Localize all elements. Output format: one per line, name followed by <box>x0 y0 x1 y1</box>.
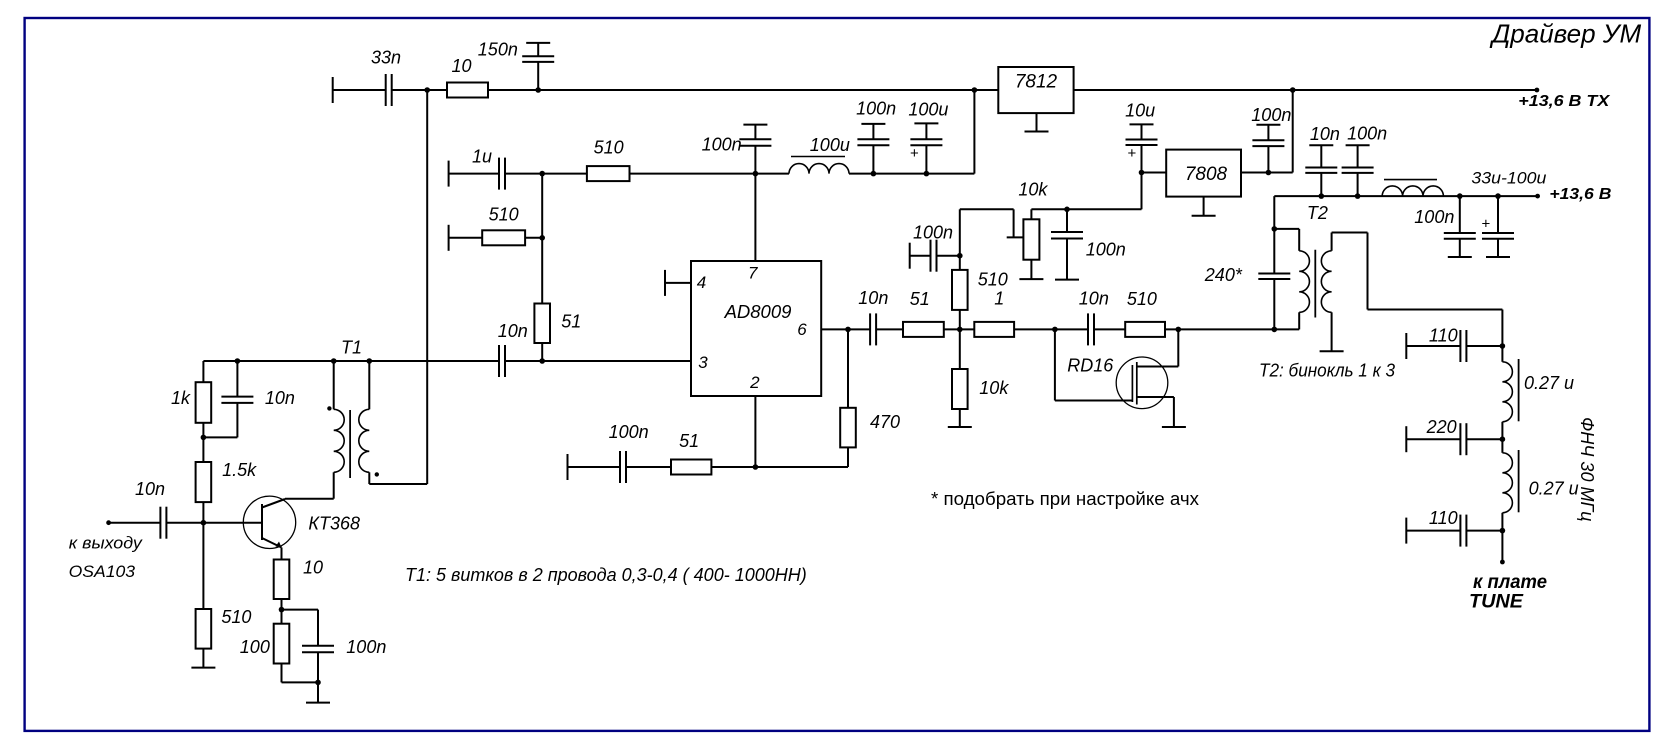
svg-text:1.5k: 1.5k <box>222 460 257 480</box>
svg-text:510: 510 <box>594 138 624 158</box>
svg-text:КТ368: КТ368 <box>308 514 360 534</box>
svg-text:510: 510 <box>221 607 251 627</box>
svg-text:240*: 240* <box>1204 265 1243 285</box>
svg-text:110: 110 <box>1429 508 1458 528</box>
svg-text:470: 470 <box>870 412 900 432</box>
svg-text:T2: T2 <box>1307 203 1328 223</box>
svg-text:100n: 100n <box>1347 123 1387 143</box>
svg-text:100n: 100n <box>1086 240 1126 260</box>
svg-text:T2: бинокль 1 к 3: T2: бинокль 1 к 3 <box>1259 361 1395 381</box>
svg-text:ФНЧ 30 МГц: ФНЧ 30 МГц <box>1577 417 1597 522</box>
svg-text:51: 51 <box>679 431 699 451</box>
svg-text:10n: 10n <box>498 321 528 341</box>
svg-text:33n: 33n <box>371 48 401 68</box>
svg-text:51: 51 <box>910 289 930 309</box>
svg-text:4: 4 <box>697 273 706 292</box>
svg-text:10n: 10n <box>1079 288 1109 308</box>
svg-text:0.27 u: 0.27 u <box>1529 479 1579 499</box>
svg-text:+: + <box>910 145 919 162</box>
svg-text:10u: 10u <box>1125 101 1155 121</box>
svg-text:7: 7 <box>748 264 758 283</box>
svg-text:100n: 100n <box>346 637 386 657</box>
svg-text:100u: 100u <box>810 135 850 155</box>
svg-text:7808: 7808 <box>1185 164 1228 185</box>
svg-text:+13,6 В: +13,6 В <box>1549 186 1611 203</box>
svg-text:1u: 1u <box>472 147 492 167</box>
svg-text:0.27 u: 0.27 u <box>1524 373 1574 393</box>
svg-text:T1: T1 <box>341 338 362 358</box>
svg-text:6: 6 <box>797 320 807 339</box>
svg-text:100n: 100n <box>609 422 649 442</box>
svg-text:10n: 10n <box>858 288 888 308</box>
svg-text:100n: 100n <box>856 98 896 118</box>
svg-text:T1: 5 витков в 2 провода 0,3-0: T1: 5 витков в 2 провода 0,3-0,4 ( 400- … <box>405 565 807 585</box>
svg-text:10k: 10k <box>979 378 1009 398</box>
svg-text:+13,6 В ТХ: +13,6 В ТХ <box>1518 93 1610 110</box>
svg-text:Драйвер УМ: Драйвер УМ <box>1489 19 1641 49</box>
svg-text:AD8009: AD8009 <box>724 301 792 322</box>
svg-text:220: 220 <box>1426 417 1457 437</box>
svg-text:1: 1 <box>994 288 1004 308</box>
svg-text:10: 10 <box>303 558 323 578</box>
svg-text:10n: 10n <box>135 479 165 499</box>
svg-text:+: + <box>1128 145 1137 162</box>
svg-text:10n: 10n <box>265 388 295 408</box>
svg-text:RD16: RD16 <box>1067 356 1114 376</box>
svg-text:10: 10 <box>452 56 472 76</box>
svg-text:OSA103: OSA103 <box>69 562 136 581</box>
svg-text:100n: 100n <box>913 223 953 243</box>
svg-text:100n: 100n <box>1251 105 1291 125</box>
svg-text:510: 510 <box>489 205 519 225</box>
svg-text:к выходу: к выходу <box>69 534 144 553</box>
svg-text:3: 3 <box>698 353 708 372</box>
svg-text:2: 2 <box>749 373 760 392</box>
svg-text:110: 110 <box>1429 326 1458 346</box>
svg-text:100u: 100u <box>908 99 948 119</box>
svg-text:1k: 1k <box>171 388 191 408</box>
svg-text:+: + <box>1482 216 1491 233</box>
svg-text:510: 510 <box>1127 289 1157 309</box>
svg-text:100n: 100n <box>1414 207 1454 227</box>
svg-text:TUNE: TUNE <box>1469 591 1524 613</box>
svg-text:100: 100 <box>240 637 270 657</box>
svg-text:100n: 100n <box>702 135 742 155</box>
svg-text:10k: 10k <box>1018 180 1048 200</box>
svg-text:7812: 7812 <box>1015 72 1058 93</box>
svg-text:510: 510 <box>978 270 1008 290</box>
svg-text:* подобрать при настройке ачх: * подобрать при настройке ачх <box>931 489 1199 509</box>
svg-text:150n: 150n <box>478 40 518 60</box>
svg-text:10n: 10n <box>1310 124 1340 144</box>
svg-text:33u-100u: 33u-100u <box>1471 169 1547 188</box>
svg-text:51: 51 <box>561 312 581 332</box>
